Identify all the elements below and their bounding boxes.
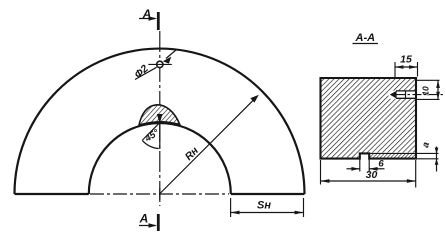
slot bottom line bbox=[396, 97, 416, 99]
dim 15 arrow right bbox=[409, 65, 418, 69]
bottom band fine hatch bbox=[369, 153, 416, 158]
leader arrowhead bbox=[163, 57, 171, 64]
slot top line bbox=[396, 90, 416, 92]
section mark top: bar bbox=[157, 12, 160, 30]
hole O2 bbox=[157, 61, 163, 67]
section mark bottom: bar bbox=[157, 214, 160, 231]
baseline right bbox=[231, 193, 305, 195]
svg-text:Sн: Sн bbox=[257, 200, 271, 212]
dim 10 arrow bottom bbox=[436, 92, 440, 100]
section mark bottom: arrow line bbox=[139, 225, 156, 227]
hole leader lower segment bbox=[135, 67, 157, 79]
Sn extension right bbox=[303, 198, 305, 217]
Sn arrow right bbox=[295, 211, 304, 215]
svg-text:6: 6 bbox=[378, 159, 384, 170]
dim 6 line left bbox=[347, 168, 360, 170]
hole horizontal centerline bbox=[148, 63, 172, 65]
section mark top: arrowhead bbox=[149, 16, 158, 21]
45 deg left ray bbox=[143, 123, 160, 140]
section outline bbox=[321, 78, 417, 159]
section mark top: arrow line bbox=[139, 18, 156, 20]
hatched bump bbox=[139, 105, 180, 125]
dim 10 line bbox=[437, 80, 439, 99]
dim 6 arrow left bbox=[351, 167, 359, 171]
dim 6 extension right bbox=[368, 159, 370, 172]
inner arc bbox=[89, 123, 231, 194]
band top line bbox=[369, 152, 438, 154]
hole leader upper segment bbox=[166, 50, 177, 59]
dim 6 line right bbox=[369, 168, 384, 170]
dim a arrow top bbox=[435, 148, 439, 154]
dim 30 arrow left bbox=[321, 179, 330, 183]
dim 6 arrow right bbox=[369, 167, 377, 171]
dim a arrow bottom bbox=[435, 159, 439, 165]
center tick bbox=[159, 188, 161, 200]
Rn arrowhead bbox=[250, 95, 258, 103]
dim 15 extension right bbox=[417, 62, 419, 77]
45 deg right ray bbox=[159, 123, 161, 149]
dim 15 extension left bbox=[394, 62, 396, 78]
bottom band clearance bbox=[359, 153, 417, 160]
Sn arrow left bbox=[231, 211, 240, 215]
dim 10 extension bottom bbox=[417, 98, 440, 100]
dim 30 arrow right bbox=[407, 179, 416, 183]
band bottom ext line bbox=[416, 158, 439, 160]
slot centerline bbox=[396, 94, 443, 96]
dim 10 arrow top bbox=[436, 80, 440, 88]
section mark bottom: arrowhead bbox=[149, 223, 158, 228]
svg-text:15: 15 bbox=[400, 54, 412, 66]
apex arrow bbox=[157, 114, 163, 124]
dim 30 extension right bbox=[415, 160, 417, 188]
radius line Rn bbox=[161, 98, 257, 194]
slot conical end bbox=[390, 91, 397, 99]
dim 15 arrow left bbox=[395, 65, 404, 69]
dim 15 line bbox=[395, 66, 418, 68]
Sn extension left bbox=[230, 198, 232, 217]
svg-text:A: A bbox=[139, 212, 149, 226]
dim a line bbox=[436, 147, 438, 172]
dim 30 extension left bbox=[320, 160, 322, 185]
svg-text:30: 30 bbox=[366, 169, 378, 181]
dim 10 extension top bbox=[417, 79, 440, 81]
45 deg arc bbox=[142, 140, 159, 148]
horizontal centerline bbox=[90, 193, 229, 195]
section body hatched bbox=[321, 78, 417, 159]
svg-text:10: 10 bbox=[421, 86, 431, 96]
dim 30 line bbox=[321, 180, 416, 182]
label A-A underline bbox=[353, 43, 379, 45]
baseline left bbox=[15, 193, 89, 195]
Sn dimension line bbox=[231, 212, 304, 214]
vertical centerline bbox=[159, 31, 161, 206]
svg-text:A-A: A-A bbox=[355, 32, 376, 44]
outer arc bbox=[15, 49, 305, 194]
dim 6 extension left bbox=[359, 159, 361, 172]
slot clearance bbox=[389, 91, 417, 99]
slot inner tick bbox=[405, 91, 407, 98]
